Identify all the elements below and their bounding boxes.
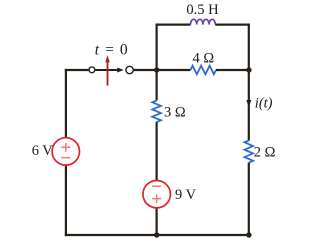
inductor L 0.5H coil bbox=[191, 19, 216, 24]
svg-text:3 Ω: 3 Ω bbox=[164, 105, 186, 121]
voltage source 6V circle bbox=[52, 138, 79, 165]
svg-text:i(t): i(t) bbox=[255, 95, 273, 111]
9V plus sign bbox=[152, 194, 161, 203]
wire: 4-ohm right lead bbox=[216, 69, 250, 71]
wire: left vertical lower (6V source to bottom corner) bbox=[65, 165, 67, 236]
wire: middle vertical, 3-ohm to 9V source bbox=[156, 122, 158, 181]
resistor R 3-ohm zigzag bbox=[152, 101, 161, 123]
resistor R 2-ohm zigzag bbox=[245, 141, 254, 163]
wire: right vertical lower (2-ohm to bottom corner) bbox=[248, 163, 250, 237]
6V plus sign bbox=[61, 143, 70, 152]
junction node: center bottom bbox=[154, 232, 159, 237]
wire: left vertical upper (corner to 6V source) bbox=[65, 69, 67, 138]
wire: switch right stub to center node bbox=[134, 69, 158, 71]
wire: 4-ohm left lead bbox=[157, 69, 191, 71]
9V minus sign bbox=[152, 185, 161, 187]
switch actuation arrow (dark red, upward) bbox=[105, 55, 109, 86]
switch contact circle right bbox=[126, 66, 133, 73]
junction node: right top bbox=[246, 67, 251, 72]
svg-text:4 Ω: 4 Ω bbox=[192, 51, 214, 67]
wire: middle vertical, node down to 3-ohm bbox=[156, 70, 158, 101]
voltage source 9V circle bbox=[143, 181, 170, 208]
6V minus sign bbox=[61, 157, 70, 159]
junction node: right bottom bbox=[246, 232, 251, 237]
wire: top horizontal right lead bbox=[215, 24, 250, 26]
svg-text:9 V: 9 V bbox=[175, 187, 197, 203]
svg-text:0.5 H: 0.5 H bbox=[186, 2, 219, 18]
wire: right vertical upper (corner to 2-ohm) bbox=[248, 24, 250, 141]
wire: bottom horizontal bbox=[65, 234, 250, 236]
switch closing arrow (black, rightward) bbox=[95, 68, 124, 73]
svg-text:2 Ω: 2 Ω bbox=[254, 144, 276, 160]
svg-text:6 V: 6 V bbox=[32, 143, 54, 159]
switch contact circle left bbox=[89, 67, 95, 73]
wire: switch lead from left corner bbox=[65, 69, 89, 71]
wire: top horizontal left lead bbox=[156, 24, 191, 26]
wire: middle vertical top (node up to inductor loop corner) bbox=[156, 24, 158, 71]
current arrow i(t) head bbox=[246, 100, 251, 108]
junction node: center top bbox=[154, 67, 159, 72]
svg-text:t = 0: t = 0 bbox=[95, 42, 129, 59]
resistor R 4-ohm zigzag bbox=[191, 66, 217, 75]
wire: middle vertical, 9V source to bottom node bbox=[156, 208, 158, 235]
